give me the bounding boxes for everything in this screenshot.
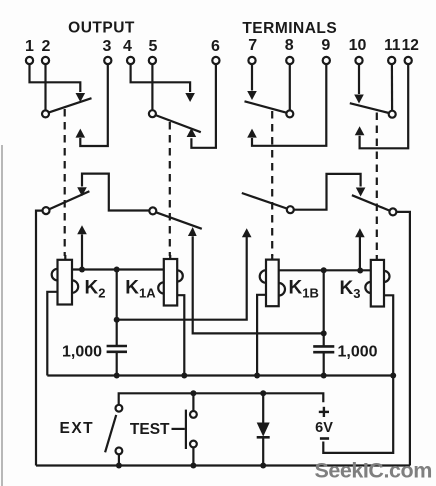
svg-text:TEST: TEST: [130, 421, 170, 438]
svg-text:1,000: 1,000: [338, 344, 378, 361]
svg-text:8: 8: [285, 37, 294, 54]
svg-text:2: 2: [42, 38, 51, 55]
svg-text:3: 3: [103, 38, 112, 55]
svg-text:5: 5: [149, 38, 158, 55]
svg-text:7: 7: [248, 37, 257, 54]
svg-text:6V: 6V: [315, 420, 333, 436]
svg-text:11: 11: [384, 37, 401, 54]
svg-text:TERMINALS: TERMINALS: [242, 20, 337, 37]
svg-text:SeekIC.com: SeekIC.com: [315, 459, 432, 483]
svg-text:1: 1: [25, 38, 34, 55]
svg-text:6: 6: [211, 38, 220, 55]
svg-text:9: 9: [321, 37, 330, 54]
svg-text:10: 10: [349, 37, 367, 54]
svg-text:EXT: EXT: [60, 420, 95, 437]
svg-text:12: 12: [402, 37, 419, 54]
svg-text:4: 4: [123, 38, 132, 55]
svg-text:1,000: 1,000: [62, 344, 102, 361]
svg-text:OUTPUT: OUTPUT: [68, 20, 135, 37]
